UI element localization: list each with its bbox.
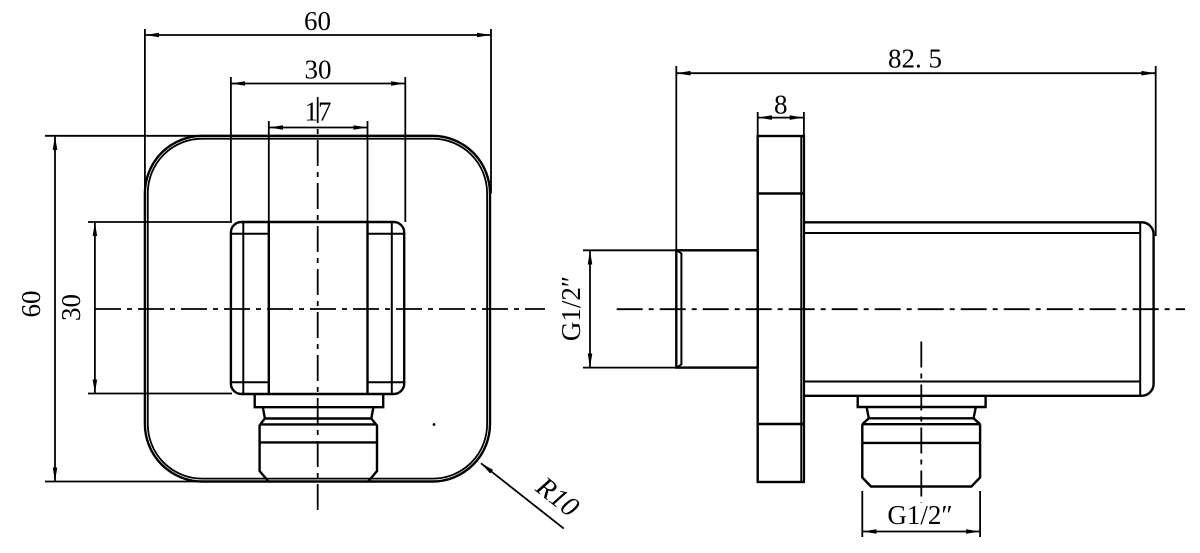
horizontal centerline (front) xyxy=(95,308,545,310)
extension line: 17 left xyxy=(268,121,270,222)
ext line 8 right xyxy=(803,112,805,136)
nut mid line (front) xyxy=(260,441,377,443)
leader R10 xyxy=(481,463,564,528)
outlet step2 taper (side) xyxy=(867,407,976,418)
boss right cylinder line xyxy=(366,222,368,394)
svg-text:82. 5: 82. 5 xyxy=(888,44,942,74)
boss top corner shelf lines xyxy=(231,233,269,235)
flange R10 tangent bottom xyxy=(758,423,804,425)
extension line: 60-height bottom xyxy=(45,481,203,483)
ext line G1/2 inlet top xyxy=(583,249,676,251)
extension line: 60-width right xyxy=(490,29,492,194)
dimension 30 top xyxy=(232,83,405,85)
inlet pipe chamfer corners xyxy=(677,251,682,368)
outlet ring (front) xyxy=(260,419,376,425)
wall flange plate side xyxy=(758,136,804,482)
boss right tangent line xyxy=(391,223,393,393)
inlet pipe G1/2 xyxy=(676,250,757,367)
svg-text:G1/2″: G1/2″ xyxy=(887,500,952,530)
svg-text:30: 30 xyxy=(56,294,86,321)
extension line: 30-height top xyxy=(88,221,232,223)
extension line: 60-height top xyxy=(45,135,203,137)
boss left tangent line xyxy=(242,223,244,393)
body bottom inner line xyxy=(804,381,1140,383)
ext line 82.5 right xyxy=(1155,66,1157,236)
ext line G1/2 outlet right xyxy=(979,491,981,537)
faceplate inner contour xyxy=(148,139,487,479)
svg-text:30: 30 xyxy=(305,55,332,85)
body arm outline xyxy=(804,222,1154,395)
svg-text:8: 8 xyxy=(774,90,788,120)
dimension G1/2 inlet xyxy=(589,251,591,367)
boss bottom corner shelf lines xyxy=(231,381,269,383)
svg-text:60: 60 xyxy=(16,291,46,318)
svg-text:17: 17 xyxy=(305,97,332,127)
svg-text:R10: R10 xyxy=(529,471,584,524)
ext line G1/2 outlet left xyxy=(861,491,863,537)
inlet pipe chamfer line xyxy=(680,253,682,365)
stray center dot xyxy=(433,423,436,426)
boss left cylinder line xyxy=(268,222,270,394)
vertical centerline (front) xyxy=(317,97,319,516)
nut mid line (side) xyxy=(862,442,980,444)
outlet nut (side) xyxy=(862,424,980,486)
outlet step2 taper (front) xyxy=(263,407,374,418)
horizontal centerline (side) xyxy=(617,308,1185,310)
ext line 8 left xyxy=(757,112,759,136)
dimension 8 xyxy=(758,117,803,119)
dimension 60 top xyxy=(146,34,491,36)
extension line: 30-width left xyxy=(230,77,232,222)
dimension 30 left vertical xyxy=(94,223,96,393)
outlet nut (front) xyxy=(260,424,377,481)
extension line: 30-height bottom xyxy=(88,393,232,395)
ext line 82.5 left xyxy=(675,66,677,250)
extension line: 17 right xyxy=(367,121,369,222)
ext line G1/2 inlet bottom xyxy=(583,367,676,369)
svg-text:60: 60 xyxy=(304,6,331,36)
dimension 60 left vertical xyxy=(54,136,56,481)
svg-text:G1/2″: G1/2″ xyxy=(556,276,586,341)
flange inner edge line xyxy=(800,137,802,481)
outlet centerline (side) xyxy=(920,342,922,504)
boss outer rounded square xyxy=(231,222,404,394)
dimension G1/2 outlet xyxy=(863,531,980,533)
faceplate outer contour xyxy=(145,136,490,482)
extension line: 60-width left xyxy=(144,29,146,194)
outlet step1 (front) xyxy=(255,394,384,407)
outlet ring (side) xyxy=(862,418,980,424)
dimension 82.5 xyxy=(677,72,1155,74)
flange R10 tangent top xyxy=(758,192,804,194)
body top inner line xyxy=(804,232,1140,234)
outlet step1 (side) xyxy=(858,396,986,407)
body end inner line xyxy=(1139,222,1141,395)
dimension 17 top xyxy=(269,127,367,129)
extension line: 30-width right xyxy=(404,77,406,222)
